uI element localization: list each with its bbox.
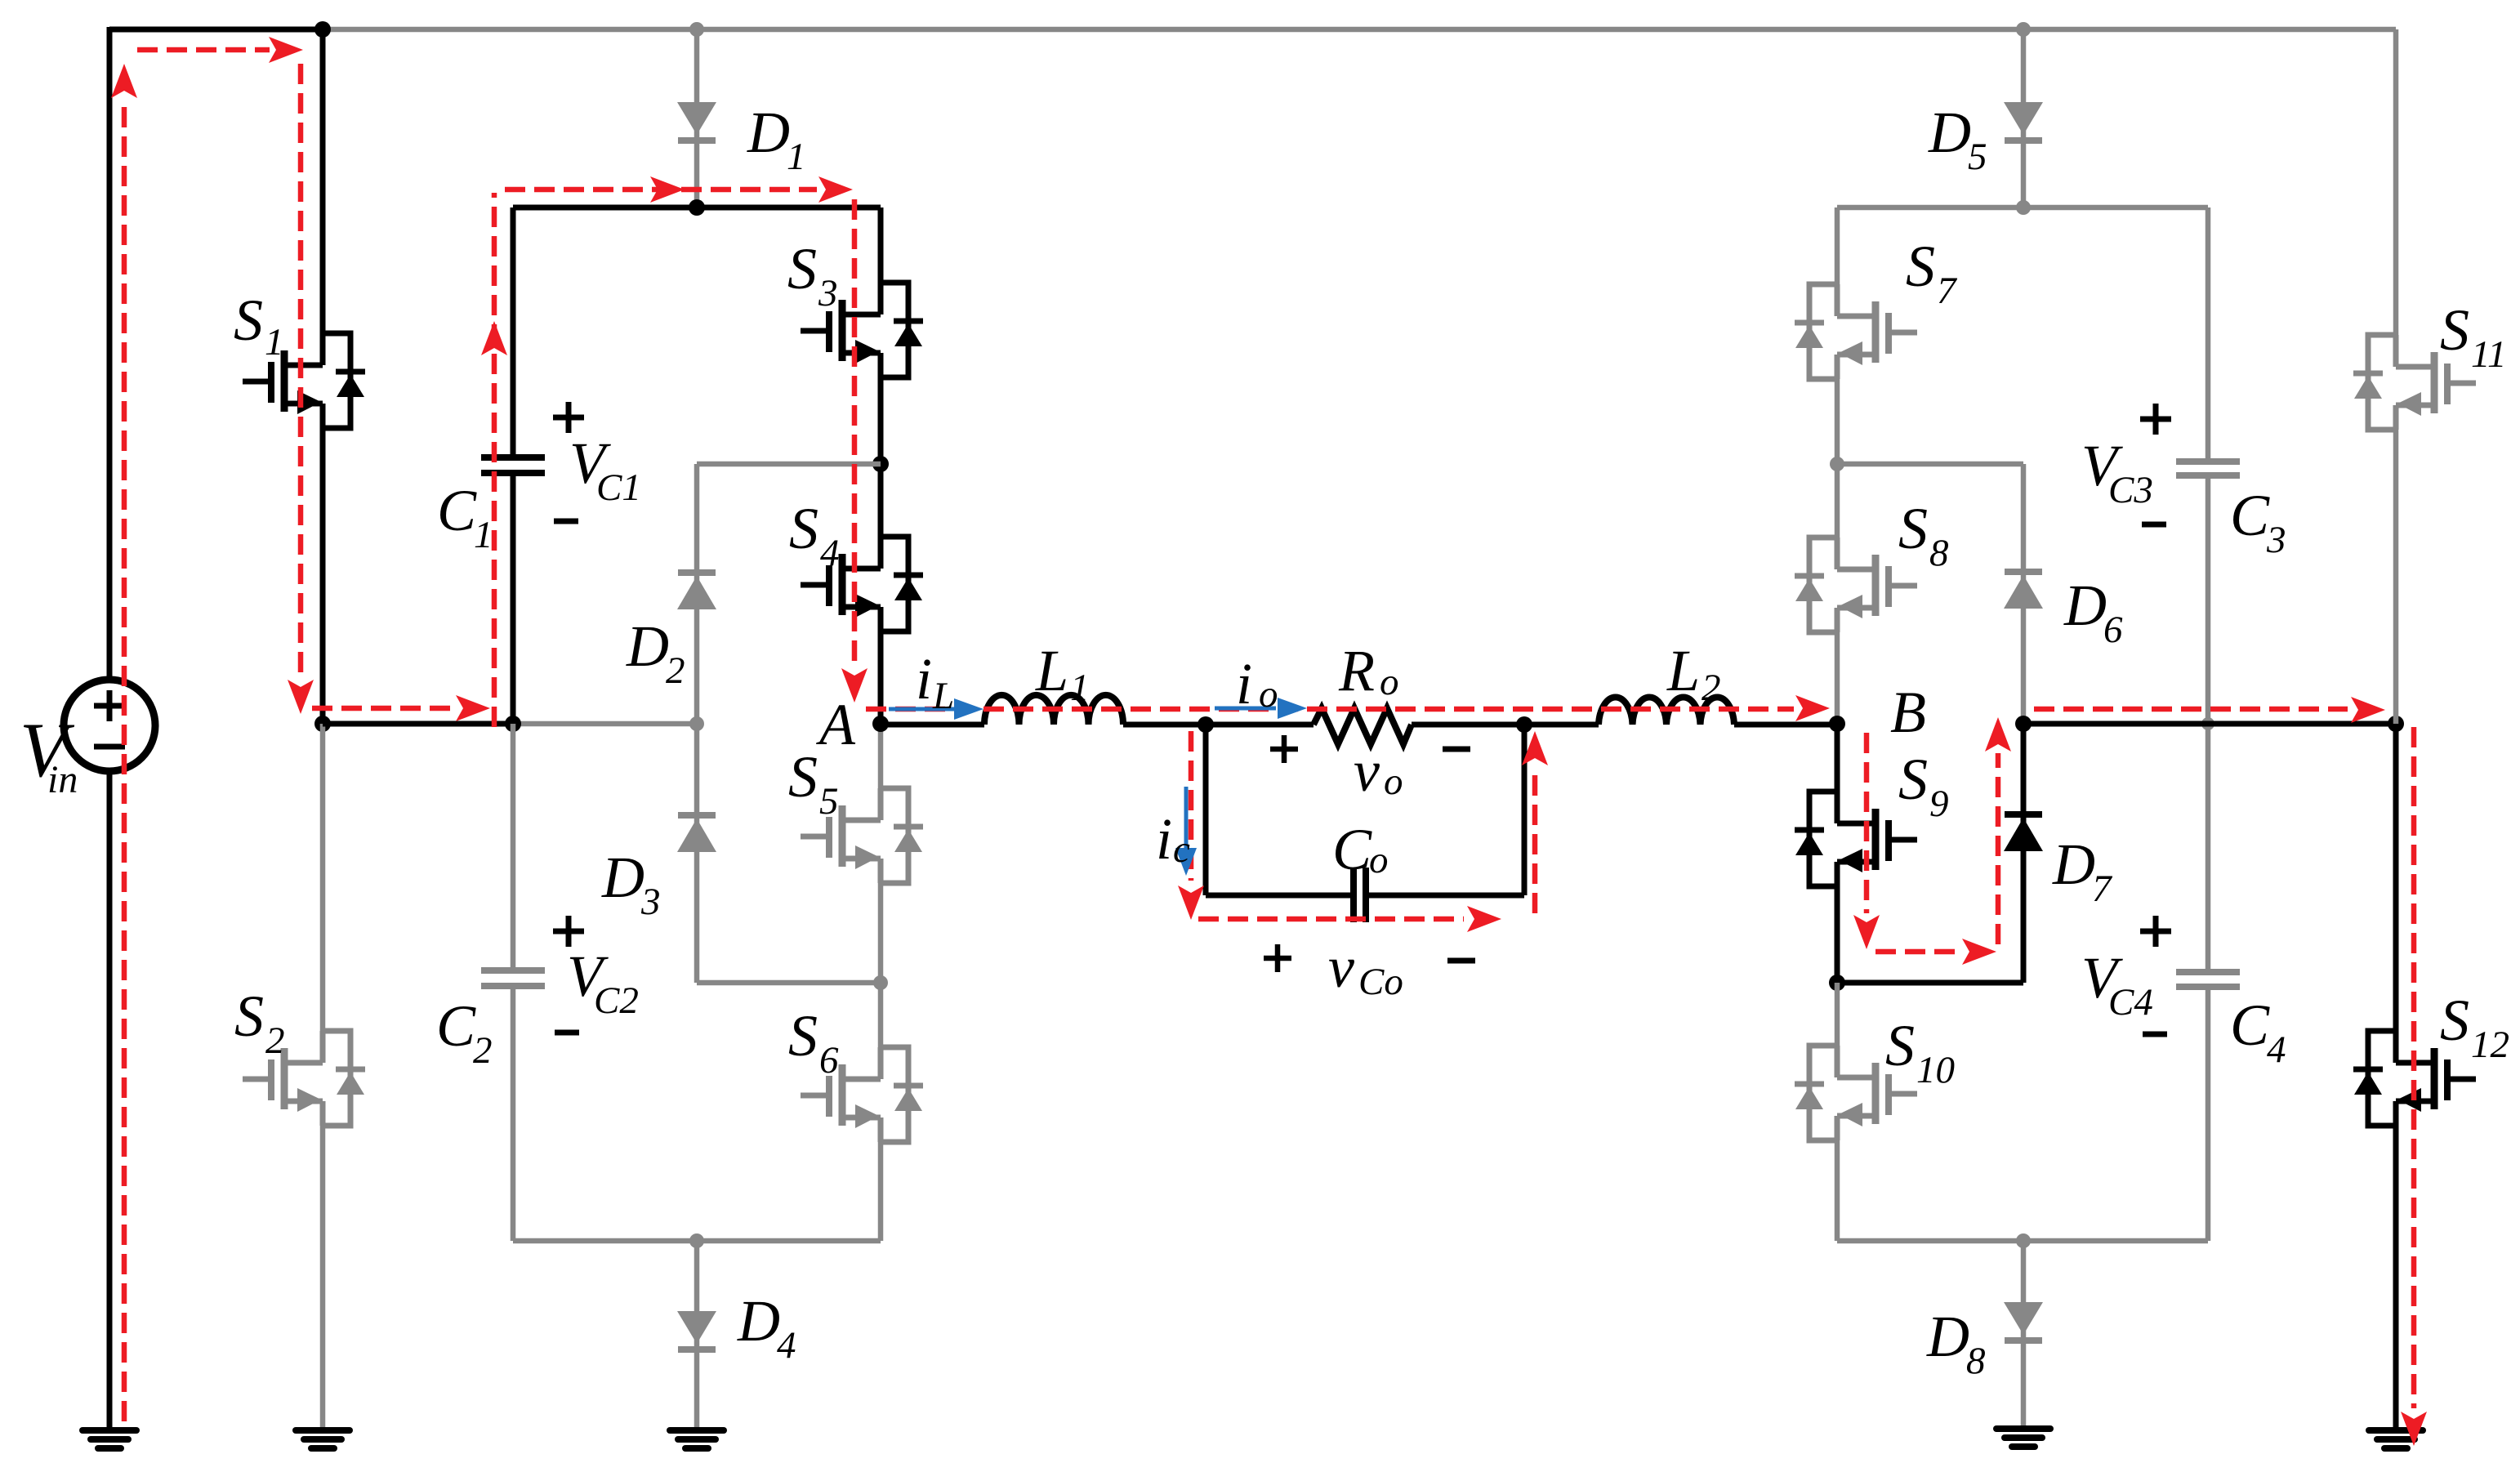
label S6 [788,1003,839,1082]
label ic [1156,806,1190,872]
wire S1 drain (top rail to S1) [320,29,326,333]
annotation + vo - [1270,735,1470,804]
svg-text:D: D [1926,1304,1969,1369]
wire S3/S4-node to D2 (y=568) [697,462,881,467]
label io [1236,651,1278,716]
svg-text:5: 5 [819,780,839,823]
svg-text:2: 2 [1702,667,1721,709]
svg-text:S: S [1898,496,1928,561]
node D5 top-rail junction [2016,22,2031,37]
svg-text:R: R [1338,638,1375,703]
wire A to L1 [881,722,984,728]
resistor Ro [1314,708,1412,744]
wire bottom (C2 to S6, y=1519) [513,1238,881,1244]
label C3 [2230,483,2286,561]
wire S5 drain (A to S5) [878,724,884,788]
svg-text:3: 3 [640,881,661,923]
arrow ic [1175,787,1197,876]
svg-text:D: D [2052,832,2095,897]
svg-text:3: 3 [818,272,838,314]
svg-text:8: 8 [1966,1340,1986,1382]
wire top-left (Vin+ to S1 drain) [109,27,323,33]
wire D6 vertical [2021,464,2027,724]
wire D8 vertical [2021,1241,2027,1429]
node S9 bottom junction [1829,975,1845,991]
svg-text:C: C [436,993,476,1059]
node S1/S2 rail junction [314,716,331,732]
svg-text:v: v [1354,738,1380,804]
wire L2 to node B [1734,722,1837,728]
wire Co bottom left [1206,893,1354,899]
svg-text:3: 3 [2266,519,2286,561]
label S12 [2440,988,2509,1066]
svg-text:o: o [1369,839,1389,881]
transistor S8 [1795,538,1917,632]
wire y=254 right (S7 corner to C3) [1837,205,2208,211]
current path: top-left to S1 [137,37,303,63]
svg-text:1: 1 [474,514,493,556]
inductor L1 [984,695,1123,725]
wire D5 vertical [2021,29,2027,207]
svg-text:B: B [1890,680,1926,745]
label C2 [436,993,493,1072]
label S10 [1885,1013,1955,1091]
svg-text:L: L [932,675,954,717]
wire S10 drain [1835,983,1840,1046]
ground (S12) [2369,1430,2423,1448]
label D3 [601,845,661,923]
wire S9 source to node [1835,886,1840,983]
svg-text:D: D [626,613,669,679]
wire C4 top lead [2206,724,2211,969]
svg-text:i: i [1236,651,1252,716]
svg-text:o: o [1380,661,1399,703]
diode D5 [2004,102,2043,141]
wire S12 drain [2393,724,2399,1031]
svg-text:C4: C4 [2108,981,2153,1024]
svg-text:C3: C3 [2108,469,2153,511]
transistor S7 [1795,284,1917,379]
svg-text:7: 7 [1937,270,1958,312]
svg-text:S: S [2440,297,2469,363]
svg-text:S: S [1885,1013,1915,1078]
current path: along Co bottom [1198,906,1501,932]
label D1 [747,100,806,178]
node vo-box left [1198,716,1214,733]
transistor S11 [2353,335,2476,430]
svg-text:6: 6 [2103,609,2123,651]
capacitor C1 [481,457,545,473]
svg-text:Co: Co [1358,961,1403,1003]
svg-text:S: S [1906,234,1935,299]
svg-text:L: L [1035,638,1068,703]
node D5 bottom junction [2016,200,2031,215]
node D1 top-rail junction [689,22,704,37]
wire D3 vertical [694,724,700,983]
ground (Vin) [83,1430,136,1448]
node D2/D3 rail junction [689,716,704,731]
current path: S9 to D7 [1876,939,1996,965]
ground (D8) [1996,1429,2050,1447]
svg-text:D: D [2063,573,2107,638]
svg-text:S: S [789,496,818,561]
annotation +VC4- [2081,916,2171,1034]
wire D7 vertical [2021,724,2027,983]
svg-text:D: D [747,100,790,165]
svg-text:1: 1 [1070,667,1090,709]
label C1 [437,478,493,556]
label iL [916,646,954,717]
label D7 [2052,832,2113,910]
node D1 bottom junction [689,199,705,216]
wire S2 drain (rail to S2) [320,724,326,1031]
current path: down through S3,S4 to A [841,199,868,703]
label S8 [1898,496,1949,574]
label S11 [2440,297,2507,376]
svg-text:c: c [1173,828,1190,871]
wire S1 source to rail node [320,428,326,724]
transistor S10 [1795,1046,1917,1140]
svg-text:8: 8 [1929,532,1949,574]
wire vo-box right vertical [1522,724,1528,895]
annotation +VC3- [2081,404,2171,524]
wire C2 bottom lead [511,989,516,1241]
wire Ro to L2 [1412,722,1599,728]
svg-text:1: 1 [265,321,284,364]
ground (S2) [296,1430,350,1448]
wire C1 top lead [511,207,516,454]
svg-text:2: 2 [666,649,685,692]
svg-text:v: v [1328,935,1354,1000]
svg-text:S: S [788,1003,818,1068]
capacitor C2 [481,970,545,986]
svg-text:1: 1 [787,136,806,178]
wire Vin left vertical (bottom) [107,770,113,1430]
wire S3 drain [878,207,884,283]
diode D2 [677,573,716,609]
node S5/S6 junction [873,975,888,990]
node C1 rail junction [505,716,521,732]
transistor S3 [801,283,923,377]
svg-text:6: 6 [819,1039,839,1082]
wire S5-S6 link [878,883,884,1047]
svg-text:S: S [234,984,264,1049]
svg-text:C: C [437,478,477,543]
wire S8 source to node B [1835,632,1840,724]
label B [1890,680,1926,745]
wire rail S1-node to C1-node [323,721,513,727]
transistor S12 [2353,1031,2476,1126]
wire S11 source to rail [2393,430,2399,724]
wire S7-S8 link [1835,379,1840,538]
svg-text:12: 12 [2471,1024,2509,1066]
label S2 [234,984,285,1062]
wire Vin left vertical (top) [107,27,113,680]
wire C2 top lead [511,724,516,967]
node D8 junction [2016,1233,2031,1248]
svg-text:4: 4 [777,1324,796,1367]
wire S12 source to ground [2393,1126,2399,1430]
svg-text:C2: C2 [594,979,639,1022]
diode D7 [2004,814,2043,851]
current path: down into Co branch [1178,731,1204,920]
svg-text:D: D [601,845,644,910]
current path: down through S12 to ground [2401,727,2427,1446]
node B [1829,716,1845,732]
label D2 [626,613,685,692]
wire D4 vertical [694,1241,700,1430]
current path: along rail A to B [866,695,1830,721]
svg-text:L: L [1666,638,1700,703]
wire C3 top lead [2206,207,2211,458]
label S1 [234,288,284,364]
wire rail D7-node to right end [2023,721,2396,727]
wire D3 to S5/S6 node (y=1203) [697,980,881,986]
svg-text:i: i [916,646,932,712]
current path: down through S1 [288,64,314,714]
svg-text:S: S [787,236,817,301]
wire S3-S4 link [878,377,884,537]
current path: along y=232 to S3 [505,176,853,203]
wire S6 source to bottom wire [878,1142,884,1241]
svg-text:5: 5 [1968,136,1987,178]
svg-text:10: 10 [1916,1049,1955,1091]
wire Co bottom right [1366,893,1524,899]
wire S7 drain [1835,207,1840,284]
label C4 [2230,993,2286,1071]
node S7/S8 junction [1830,457,1844,471]
svg-text:i: i [1156,806,1172,872]
label Co [1332,817,1389,882]
wire D2 vertical [694,464,700,724]
node right-end rail junction [2388,716,2404,732]
wire S9-node to D7 (y=1203) [1837,980,2023,986]
wire C1 bottom lead [511,476,516,724]
label S5 [788,744,839,823]
wire C4 bottom lead [2206,990,2211,1241]
arrow io [1215,698,1307,719]
inductor L2 [1599,697,1734,725]
node S1/S2 top-rail junction [314,21,331,38]
transistor S2 [243,1031,365,1126]
label D5 [1928,100,1987,178]
voltage source Vin [64,680,155,771]
label S4 [789,496,840,574]
svg-text:2: 2 [473,1029,493,1072]
svg-text:4: 4 [820,532,840,574]
svg-text:11: 11 [2471,333,2507,376]
wire C1-top to S3 (y=254) [513,205,881,211]
current path: up through C1 [481,193,507,727]
wire S2 source to ground [320,1126,326,1430]
wire S11 drain (top rail down) [2393,29,2399,335]
svg-text:7: 7 [2092,868,2113,910]
node D6/D7 rail junction [2015,716,2032,732]
label S3 [787,236,838,314]
annotation +VC2- [553,916,639,1033]
diode D3 [677,815,716,852]
annotation + vCo - [1264,935,1475,1003]
label S9 [1898,747,1949,825]
node A [872,716,889,732]
svg-text:4: 4 [2267,1028,2286,1071]
node C3/C4 rail junction [2201,717,2214,730]
svg-text:D: D [1928,100,1971,165]
wire vo-box left vertical [1203,724,1209,895]
wire S7/S8-node to D6 (y=568) [1837,462,2023,467]
svg-text:in: in [47,758,78,801]
transistor S5 [801,788,923,883]
diode D4 [677,1311,716,1349]
svg-text:S: S [1898,747,1928,812]
current path: up along Vin [111,64,137,1421]
label L1 [1035,638,1090,709]
diode D1 [677,102,716,141]
label Ro [1338,638,1399,703]
wire D1 vertical [694,29,700,207]
svg-text:o: o [1259,673,1278,716]
svg-text:C: C [2230,993,2270,1058]
arrow iL [889,698,983,720]
current path: down through S9 [1853,733,1880,949]
capacitor C4 [2176,972,2240,987]
wire C3 bottom lead [2206,479,2211,724]
current path: rail to C1 [312,695,490,721]
current path: rail to S12 [2034,697,2385,723]
wire L1 to Ro [1123,722,1314,728]
svg-text:A: A [816,692,856,757]
label S7 [1906,234,1958,312]
node vo-box right [1516,716,1532,733]
current path: up to rail after Co [1522,731,1548,913]
svg-text:D: D [737,1288,780,1354]
transistor S9 [1795,792,1917,886]
svg-text:S: S [788,744,818,810]
transistor S4 [801,537,923,631]
transistor S6 [801,1047,923,1142]
wire rail C1-node to D2-node (gray) [513,721,697,727]
transistor S1 [243,333,365,428]
wire S10 source to bottom wire [1835,1140,1840,1241]
node D4 junction [689,1233,704,1248]
capacitor C3 [2176,462,2240,475]
wire S4 source to node A [878,631,884,724]
label D6 [2063,573,2123,651]
current path: up through D7 to rail [1985,717,2011,944]
label D8 [1926,1304,1986,1382]
svg-text:C: C [2230,483,2270,548]
node S3/S4 junction [872,456,889,472]
svg-text:9: 9 [1929,783,1949,825]
diode D8 [2004,1302,2043,1340]
wire top rail (gray, S1 node to S11 corner) [323,27,2396,33]
capacitor Co [1354,868,1366,922]
label A [816,692,856,757]
svg-text:S: S [234,288,263,353]
annotation +VC1- [553,402,641,521]
ground (D4) [670,1430,724,1448]
wire bottom right (S10 to C4, y=1519) [1837,1238,2208,1244]
wire S9 drain (B down) [1835,724,1840,792]
label D4 [737,1288,796,1367]
label L2 [1666,638,1721,709]
diode D6 [2004,572,2043,609]
svg-text:C1: C1 [596,466,641,509]
svg-text:2: 2 [265,1019,285,1062]
label Vin [20,707,78,801]
svg-text:o: o [1384,761,1403,803]
svg-text:C: C [1332,817,1372,882]
svg-text:S: S [2440,988,2469,1053]
